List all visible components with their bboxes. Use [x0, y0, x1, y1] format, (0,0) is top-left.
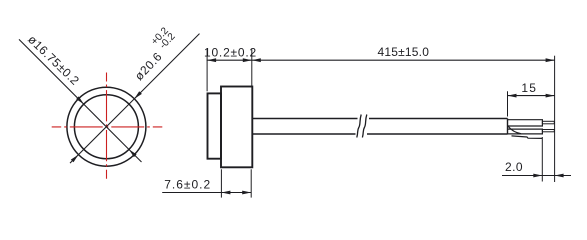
arrow at outer circle NE	[134, 91, 142, 99]
arrow 15 left	[508, 94, 517, 98]
bottom wire insulation	[508, 129, 543, 134]
svg-text:2.0: 2.0	[505, 160, 523, 174]
ext line flange left (10.2)	[206, 49, 208, 92]
arrow 7.6 left	[221, 191, 230, 195]
jacket peel curve	[508, 126, 521, 134]
flange rectangle	[208, 93, 222, 158]
cable bottom line (right segment)	[367, 133, 508, 135]
arrow at outer circle SW	[71, 155, 79, 163]
label Ø16.75±0.2	[25, 32, 82, 88]
dim line 2.0	[502, 175, 571, 177]
svg-text:15: 15	[521, 81, 537, 95]
cable break left curve	[357, 115, 361, 138]
arrow 2.0 left (outside pointing right)	[533, 174, 542, 178]
ext line body right (10.2/415)	[251, 49, 253, 86]
cable top line (left segment)	[252, 118, 357, 120]
arrow 415 left	[252, 58, 261, 62]
centerline vertical (red)	[106, 73, 108, 179]
cable jacket end	[507, 119, 509, 135]
ext line 2.0 left	[541, 137, 543, 182]
dimension leader line Ø20.6 (SW-NE diagonal)	[70, 34, 200, 164]
arrow 15 right	[546, 94, 555, 98]
dim line 415	[252, 59, 555, 61]
arrow at inner circle SE	[129, 149, 137, 157]
cable bottom line (left segment)	[252, 133, 355, 135]
ext line wire end right (415/15/2.0)	[554, 56, 556, 182]
svg-text:7.6±0.2: 7.6±0.2	[164, 177, 211, 191]
outer circle (Ø20.6)	[67, 87, 146, 166]
dim line 10.2	[207, 59, 252, 61]
top wire insulation	[508, 120, 543, 126]
third wire stub (stepped line)	[512, 136, 543, 139]
arrow 2.0 right (outside pointing left)	[555, 174, 564, 178]
body rectangle	[221, 87, 252, 168]
arrow 10.2 right	[243, 58, 252, 62]
top wire stripped tip	[542, 121, 554, 124]
dim line 15	[508, 95, 555, 97]
bottom wire stripped tip	[542, 130, 554, 132]
cable top line (right segment)	[369, 118, 508, 120]
cable break right curve	[362, 115, 366, 138]
arrow 10.2 left	[207, 58, 216, 62]
arrow 415 right	[546, 58, 555, 62]
ext line 7.6 left	[220, 169, 222, 197]
ext line 7.6 right	[250, 169, 252, 197]
dimension leader line Ø16.75 (NW-SE diagonal)	[19, 39, 142, 162]
svg-text:10.2±0.2: 10.2±0.2	[204, 46, 257, 60]
dim line 7.6	[162, 192, 251, 194]
ext line jacket end (15)	[507, 91, 509, 116]
arrow at inner circle NW	[76, 96, 84, 104]
arrow 7.6 right	[242, 191, 251, 195]
label Ø20.6 +0.2/-0.2	[124, 25, 181, 83]
inner circle (Ø16.75)	[74, 95, 138, 159]
svg-text:415±15.0: 415±15.0	[378, 45, 430, 59]
centerline horizontal (red)	[52, 126, 163, 128]
